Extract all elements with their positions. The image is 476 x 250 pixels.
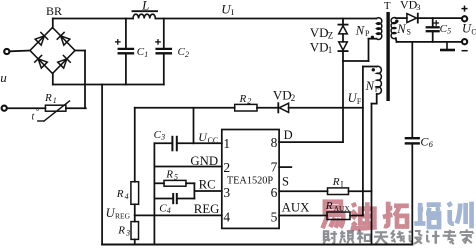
svg-text:S: S <box>282 175 289 189</box>
wire: R1 to AC leg <box>66 107 86 109</box>
svg-text:F: F <box>357 97 362 106</box>
label u (AC input) <box>0 70 7 85</box>
inductor L <box>133 11 158 18</box>
svg-text:3: 3 <box>416 2 420 12</box>
label VDZ <box>310 25 333 41</box>
svg-text:BR: BR <box>46 4 62 18</box>
secondary ground <box>441 42 453 50</box>
label C2 <box>178 46 190 59</box>
wire: VDZ to VD1 link <box>342 34 344 42</box>
label T <box>384 0 391 12</box>
label UO <box>462 22 476 37</box>
label R1 <box>44 92 57 105</box>
svg-text:TEA1520P: TEA1520P <box>227 176 274 187</box>
resistor R_I <box>328 188 349 195</box>
wire: AC input 2 (terminal to R1) <box>8 107 46 109</box>
label R4 <box>116 188 129 201</box>
minus sign output <box>462 50 467 52</box>
wire: UCC feed line (R2/VD2 row) <box>135 107 363 109</box>
wire: NF top link <box>363 66 377 68</box>
svg-text:F: F <box>375 85 380 94</box>
wire: feed line down to UCC row <box>193 108 195 144</box>
feedback winding NF <box>377 66 382 94</box>
wire: C6 bottom section <box>411 145 413 245</box>
wire: clamp bottom to NP bottom <box>343 60 369 62</box>
capacitor C5 <box>427 27 439 31</box>
wire: GND row to pin 2 <box>154 166 221 168</box>
resistor R2 <box>235 104 257 111</box>
svg-text:R: R <box>116 188 124 200</box>
wire: drain riser vertical <box>342 61 344 142</box>
svg-text:RC: RC <box>199 178 216 192</box>
plus sign output <box>462 6 467 11</box>
diode VD3 <box>407 14 418 23</box>
pin label D <box>284 128 293 142</box>
wire: AC input 1 to bridge left vertex <box>10 50 30 53</box>
label U_F (feedback node) <box>348 91 362 106</box>
dot NF polarity <box>372 68 375 71</box>
label C1 <box>137 46 149 59</box>
pin label REG <box>194 202 220 216</box>
wire: bottom ground rail <box>102 244 412 246</box>
svg-text:VD: VD <box>273 87 292 102</box>
svg-text:1: 1 <box>223 136 230 151</box>
wire: C1 bottom <box>125 54 127 84</box>
wire: D pin to drain riser <box>279 141 343 143</box>
wire: top positive rail U_I <box>53 18 377 20</box>
svg-text:u: u <box>0 70 7 85</box>
plus sign C2 <box>156 40 160 44</box>
wire: junction to R3 stub <box>134 215 136 221</box>
svg-text:S: S <box>407 28 411 37</box>
label R_I <box>332 176 344 189</box>
svg-text:CC: CC <box>208 136 219 145</box>
dot NS polarity <box>395 20 398 23</box>
svg-text:4: 4 <box>125 192 129 201</box>
capacitor C3 <box>172 137 176 151</box>
secondary winding NS <box>391 18 396 39</box>
label t deg <box>32 107 40 123</box>
wire: C6 top section <box>411 42 413 137</box>
svg-text:6: 6 <box>271 185 278 200</box>
svg-text:VD: VD <box>310 25 329 40</box>
svg-text:1: 1 <box>53 96 57 105</box>
wire: bridge right vertex to AC leg corner <box>75 50 85 52</box>
pin label AUX <box>282 201 310 215</box>
svg-text:2: 2 <box>223 160 230 175</box>
svg-text:T: T <box>384 0 391 12</box>
wire: AC leg vertical <box>84 51 86 109</box>
svg-text:REG: REG <box>194 202 220 216</box>
svg-text:1: 1 <box>328 45 333 55</box>
dot NP polarity <box>371 36 374 39</box>
bridge rectifier BR <box>30 28 75 74</box>
input terminal 2 <box>2 106 7 111</box>
pin 7 stub wire <box>279 166 291 168</box>
wire: negative rail down to bottom rail <box>101 85 103 245</box>
pin 1 <box>223 136 230 151</box>
watermark text row 1: yi di tuo pei xun (red/blue) and row 2 slogan (gray) <box>323 202 474 244</box>
wire: ground branch vertical <box>153 143 155 244</box>
pin 7 <box>271 160 278 175</box>
svg-text:3: 3 <box>125 228 130 237</box>
svg-text:2: 2 <box>247 97 251 106</box>
input terminal 1 <box>4 49 9 54</box>
svg-text:R: R <box>44 92 52 104</box>
svg-text:I: I <box>341 179 344 188</box>
resistor R_AUX <box>327 212 350 220</box>
svg-text:N: N <box>355 23 365 37</box>
wire: negative rail <box>53 84 164 86</box>
wire: C2 bottom <box>163 54 165 84</box>
plus sign C1 <box>116 40 120 44</box>
wire: R_I to ground drop <box>349 190 372 192</box>
svg-text:REG: REG <box>115 212 131 221</box>
wire: C5 top stub <box>432 18 434 26</box>
pin 8 <box>271 135 278 150</box>
wire: bridge + output to top rail <box>52 19 54 29</box>
pin 6 <box>271 185 278 200</box>
thermistor R1 <box>38 101 70 121</box>
svg-text:5: 5 <box>447 27 451 36</box>
wire: secondary top (NS to VD3 to +) <box>396 17 462 19</box>
svg-text:R: R <box>165 169 173 181</box>
pin 2 <box>223 160 230 175</box>
label VD1 <box>310 39 332 55</box>
pin label GND <box>190 154 218 168</box>
label L <box>141 0 149 13</box>
wire: NP bottom riser <box>369 39 377 61</box>
zener diode VDZ <box>338 25 347 34</box>
svg-text:7: 7 <box>271 160 278 175</box>
resistor R4 <box>131 182 139 205</box>
wire: UREG row to pin 4 <box>135 214 222 216</box>
svg-text:8: 8 <box>271 135 278 150</box>
svg-text:2: 2 <box>291 93 296 103</box>
label VD3 <box>400 0 421 12</box>
svg-text:P: P <box>365 29 370 38</box>
output terminal - <box>462 39 467 44</box>
label VD2 <box>273 87 295 103</box>
svg-text:I: I <box>231 7 234 17</box>
pin label UCC <box>198 130 218 145</box>
svg-text:AUX: AUX <box>282 201 310 215</box>
svg-text:N: N <box>365 79 375 93</box>
pin 3 <box>223 185 230 200</box>
label TEA1520P <box>227 176 274 187</box>
svg-text:4: 4 <box>167 206 171 215</box>
svg-text:R: R <box>117 225 125 237</box>
svg-text:VD: VD <box>310 39 329 54</box>
wire: S pin to R_I <box>279 190 327 192</box>
svg-text:O: O <box>471 27 476 36</box>
capacitor C2 <box>157 49 171 53</box>
label U_I (rail voltage) <box>221 1 234 17</box>
label C3 <box>154 129 166 142</box>
svg-text:4: 4 <box>223 209 230 224</box>
label R3 <box>117 225 130 238</box>
resistor R3 <box>131 222 139 240</box>
pin label S <box>282 175 289 189</box>
label NF <box>365 79 380 94</box>
svg-text:5: 5 <box>174 172 178 181</box>
pin label RC <box>199 178 216 192</box>
wire: VD1 to clamp bottom <box>342 52 344 62</box>
wire: C4 row <box>154 198 194 200</box>
capacitor C4 <box>173 194 177 203</box>
wire: R_AUX to feedback line <box>350 215 363 217</box>
wire: R4 to junction stub <box>134 204 136 215</box>
svg-text:R: R <box>332 176 340 188</box>
wire: RC row to pin 3 <box>194 190 221 192</box>
wire: feedback vertical (NF top / U_F) <box>362 67 364 216</box>
capacitor C1 <box>119 49 133 53</box>
wire: R5/C4 joining vertical <box>193 183 195 198</box>
capacitor C6 <box>406 138 419 143</box>
svg-text:R: R <box>239 93 247 105</box>
wire: UCC row (C3 to pin 1) <box>154 142 221 144</box>
primary winding NP <box>376 18 381 40</box>
svg-text:5: 5 <box>271 209 278 224</box>
svg-text:GND: GND <box>190 154 218 168</box>
wire: NF bottom to ground vertical <box>372 94 377 245</box>
label R_AUX <box>325 200 351 213</box>
wire: C1 top <box>125 19 127 48</box>
label C5 <box>440 23 452 36</box>
svg-text:3: 3 <box>223 185 230 200</box>
label NS <box>396 22 411 37</box>
svg-text:L: L <box>141 0 149 13</box>
op-amp/controller IC U1 TEA1520P <box>222 130 279 229</box>
diode VD1 <box>338 42 347 51</box>
svg-text:t: t <box>32 112 35 123</box>
label NP <box>355 23 370 38</box>
wire: bridge - output drop <box>52 73 54 84</box>
label C6 <box>420 135 433 150</box>
svg-text:3: 3 <box>160 132 165 141</box>
pin 4 <box>223 209 230 224</box>
svg-text:VD: VD <box>400 0 418 11</box>
svg-text:6: 6 <box>429 139 434 149</box>
pin 5 <box>271 209 278 224</box>
wire: C5 bottom stub <box>432 32 434 42</box>
svg-text:2: 2 <box>185 50 189 59</box>
wire: AUX pin to R_AUX <box>279 215 327 217</box>
svg-text:D: D <box>284 128 293 142</box>
label BR <box>46 4 62 18</box>
output terminal + <box>462 16 467 21</box>
wire: clamp top connection to rail <box>342 19 344 25</box>
svg-text:N: N <box>396 22 406 36</box>
label R5 <box>165 169 178 182</box>
label R2 <box>239 93 252 106</box>
label UREG <box>106 206 131 221</box>
label C4 <box>159 203 171 216</box>
wire: R3 to bottom rail stub <box>134 239 136 244</box>
resistor R5 <box>164 180 186 186</box>
wire: R5 row <box>154 182 194 184</box>
transformer core T <box>386 12 389 101</box>
svg-text:1: 1 <box>144 50 148 59</box>
wire: feed line down to R4 top <box>134 108 136 182</box>
wire: C2 top <box>163 19 165 48</box>
plus sign C5 <box>434 21 438 25</box>
diode VD2 <box>278 103 288 112</box>
wire: secondary bottom (NS to -) <box>396 38 462 42</box>
svg-text:°: ° <box>36 107 39 116</box>
